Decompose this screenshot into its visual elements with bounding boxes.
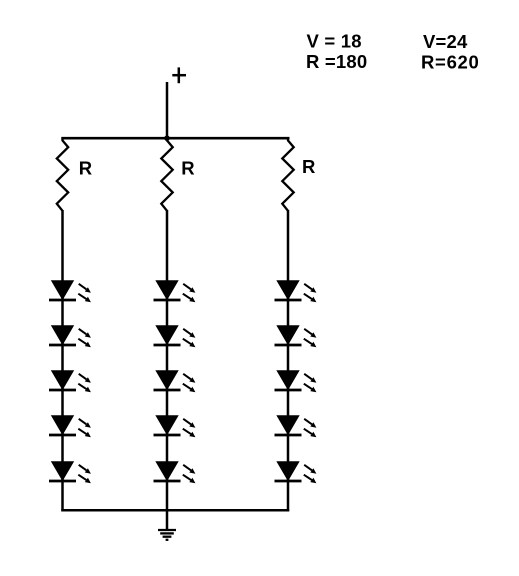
LED D9	[154, 416, 196, 438]
svg-text:R =180: R =180	[306, 51, 367, 72]
wire string 3	[287, 210, 290, 511]
plus supply symbol	[172, 67, 186, 83]
LED D11	[275, 281, 317, 303]
LED D2	[49, 326, 91, 348]
wire string 1	[61, 210, 64, 511]
LED D5	[49, 462, 91, 484]
ground	[158, 530, 176, 540]
svg-text:V = 18: V = 18	[307, 30, 362, 51]
LED D14	[275, 416, 317, 438]
svg-text:R: R	[79, 157, 92, 178]
LED D7	[154, 326, 196, 348]
LED D1	[49, 281, 91, 303]
bottom bus wire	[61, 509, 289, 512]
resistor R1	[57, 138, 68, 211]
svg-text:R: R	[181, 157, 194, 178]
LED D15	[275, 462, 317, 484]
LED D4	[49, 416, 91, 438]
ground stub wire	[166, 510, 169, 530]
top bus wire	[61, 137, 289, 140]
resistor R2	[161, 138, 172, 211]
LED D13	[275, 371, 317, 393]
junction node	[164, 135, 170, 141]
LED D6	[154, 281, 196, 303]
wire string 2	[166, 210, 169, 511]
LED D10	[154, 462, 196, 484]
supply wire	[166, 82, 169, 139]
resistor R3	[282, 138, 293, 211]
LED D12	[275, 326, 317, 348]
svg-text:R: R	[302, 156, 315, 177]
svg-text:V=24: V=24	[423, 31, 468, 52]
LED D3	[49, 371, 91, 393]
LED D8	[154, 371, 196, 393]
svg-text:R=620: R=620	[421, 52, 480, 73]
